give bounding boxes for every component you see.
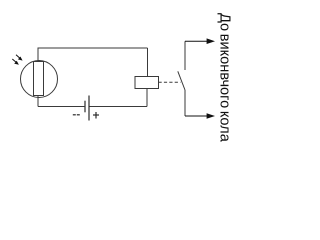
- wire photoresistor bottom lead: [37, 96, 39, 107]
- wire relay bottom vertical: [146, 89, 148, 107]
- switch blade: [178, 71, 185, 90]
- wire top horizontal: [38, 47, 148, 49]
- svg-text:До виконвчого кола: До виконвчого кола: [217, 13, 233, 143]
- wire photoresistor top lead: [37, 48, 39, 63]
- dashed mechanical link: [159, 81, 181, 83]
- label minus: [73, 114, 80, 115]
- top output arrow: [185, 38, 215, 44]
- photoresistor R1 resistor body: [34, 62, 44, 96]
- light arrow 1: [16, 55, 23, 61]
- photoresistor R1 circle: [21, 61, 58, 98]
- battery GB1 negative plate: [84, 101, 86, 113]
- label plus: [93, 112, 99, 119]
- bottom output arrow: [185, 113, 215, 119]
- relay coil K1: [135, 77, 159, 89]
- switch upper stub: [184, 41, 186, 70]
- wire bottom rail right: [89, 106, 147, 108]
- wire right vertical to relay coil: [147, 48, 149, 77]
- light arrow 2: [12, 59, 19, 65]
- battery GB1 positive plate: [88, 96, 90, 121]
- switch lower stub: [184, 90, 186, 116]
- wire bottom rail left: [38, 106, 85, 108]
